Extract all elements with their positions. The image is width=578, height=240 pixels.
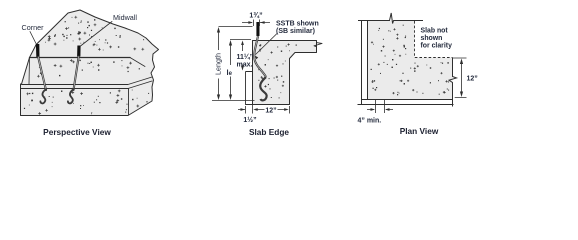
plan top edge with break (358, 13, 423, 24)
slab right fold edge (130, 58, 145, 67)
svg-text:for clarity: for clarity (421, 43, 453, 50)
dim Length (212, 27, 255, 101)
stipple slab edge (281, 76, 282, 77)
plan hidden slab edges (dashed) (415, 21, 453, 58)
dim 11-1/4 max arrow stubs (242, 44, 244, 70)
svg-text:Perspective View: Perspective View (43, 127, 111, 137)
svg-text:11¼”: 11¼” (237, 53, 254, 61)
dim 1-1/2 inch (238, 90, 253, 114)
dim 12 inch (plan) (453, 58, 467, 98)
concrete stipple band (37, 75, 39, 77)
slab break edge right (314, 43, 322, 47)
svg-text:1¾”: 1¾” (249, 12, 262, 20)
svg-text:Slab Edge: Slab Edge (249, 127, 289, 137)
form board outer line (246, 72, 253, 105)
midwall label leader (81, 22, 113, 47)
midwall anchor bolt hook (68, 89, 74, 103)
dim 1-3/4 inch (242, 20, 270, 27)
midwall anchor bolt head (77, 46, 81, 57)
concrete stipple top (75, 16, 77, 18)
plan left form edge (362, 21, 368, 106)
corner anchor bolt hook (40, 89, 46, 103)
svg-text:12”: 12” (265, 107, 276, 114)
dim le embedment line (230, 40, 251, 98)
slab band left corner edge (28, 58, 31, 85)
stipple plan (443, 91, 445, 93)
svg-text:Corner: Corner (22, 23, 45, 32)
slab band bottom edge (22, 77, 153, 85)
footing front right edge (128, 89, 130, 116)
corner anchor bolt head (36, 44, 40, 57)
svg-text:4” min.: 4” min. (358, 118, 382, 125)
midwall anchor bolt rod (74, 57, 79, 91)
svg-text:Plan View: Plan View (400, 126, 439, 136)
concrete mass silhouette (21, 10, 159, 116)
SSTB bolt shank (254, 36, 266, 77)
svg-text:1½”: 1½” (243, 116, 256, 124)
slab edge concrete section (253, 41, 317, 105)
concrete stipple footing (81, 93, 83, 95)
corner label leader (30, 32, 36, 44)
plan bottom edges (358, 100, 454, 105)
svg-text:SSTB shown: SSTB shown (276, 21, 319, 28)
svg-text:Slab not: Slab not (421, 28, 449, 35)
dim 12 inch (slab edge) (257, 106, 290, 114)
corner anchor bolt rod (38, 57, 46, 90)
dim 4 inch min (367, 100, 393, 113)
svg-text:Length: Length (213, 53, 222, 75)
SSTB bolt hook (260, 77, 266, 100)
SSTB bolt head (256, 22, 259, 36)
svg-text:Midwall: Midwall (113, 13, 137, 22)
svg-text:max.: max. (237, 62, 253, 69)
svg-text:(SB similar): (SB similar) (276, 28, 315, 35)
svg-text:shown: shown (421, 35, 443, 42)
slab front top edge (30, 57, 131, 59)
leader SSTB shown (256, 34, 278, 55)
svg-text:12”: 12” (467, 76, 478, 83)
plan right edge with break (449, 58, 457, 107)
plan footing fill (368, 21, 453, 100)
footing top front edge (21, 81, 153, 89)
